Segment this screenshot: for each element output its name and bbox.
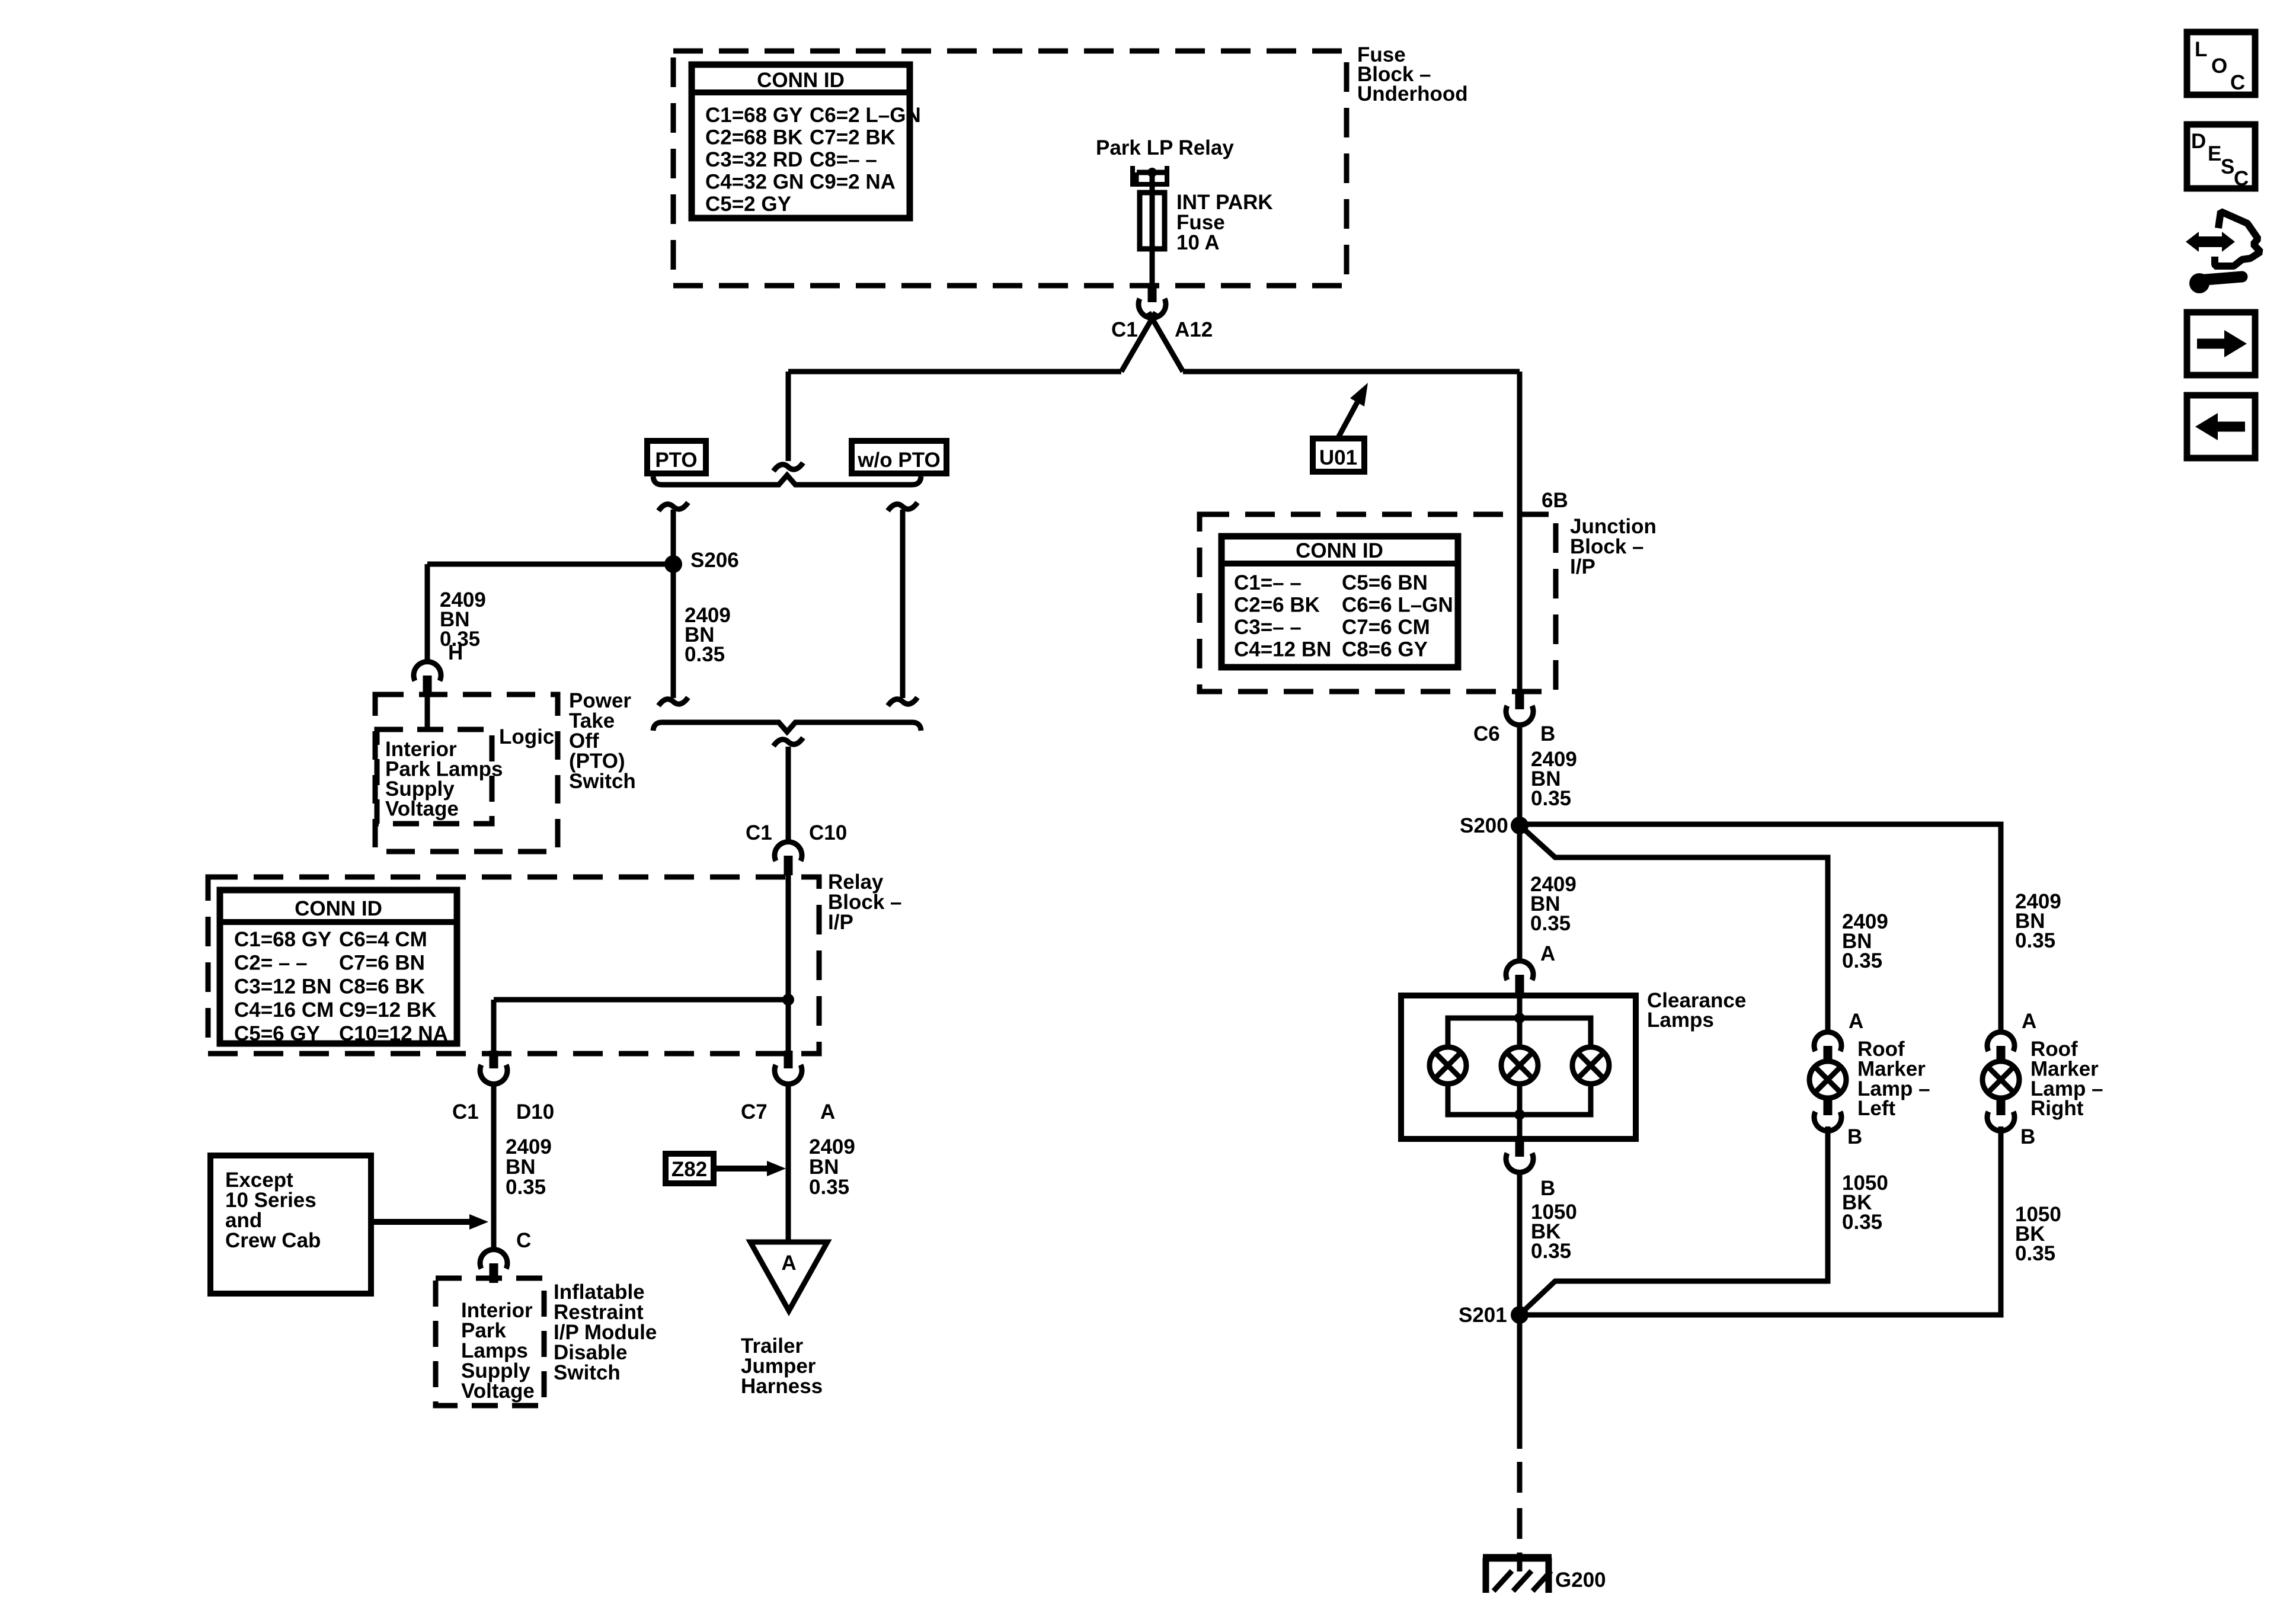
relay contact (Park LP Relay) (1130, 166, 1169, 184)
wire S200 down (1517, 825, 1523, 961)
svg-text:C3=– –: C3=– – (1234, 616, 1302, 639)
roof marker lamp right (1997, 1046, 2006, 1061)
svg-text:C4=16 CM: C4=16 CM (234, 998, 334, 1022)
wire to C1/C10 connector (786, 747, 791, 841)
arrow U01 (1337, 383, 1368, 440)
svg-text:C5=2 GY: C5=2 GY (705, 193, 791, 216)
svg-text:S200: S200 (1460, 814, 1508, 837)
svg-text:D10: D10 (516, 1100, 554, 1124)
connector C1/A12 at fuse block (1139, 284, 1166, 318)
wire down right branch (1517, 372, 1523, 692)
svg-text:C1=68 GY: C1=68 GY (705, 104, 802, 127)
diagnostic icon (arrows and wrench) (2186, 212, 2260, 293)
svg-text:C5=6 BN: C5=6 BN (1342, 571, 1428, 594)
wire label 2409 BN 0.35 (C7/A) (809, 1135, 855, 1199)
PTO right wire (900, 510, 906, 698)
svg-text:0.35: 0.35 (685, 643, 725, 666)
junction dot clearance bus top (1514, 1013, 1525, 1023)
PTO box (647, 441, 706, 473)
svg-text:0.35: 0.35 (2015, 929, 2055, 952)
svg-text:Harness: Harness (741, 1375, 823, 1398)
svg-text:Switch: Switch (569, 770, 636, 793)
svg-text:C6: C6 (1473, 722, 1500, 745)
svg-text:C4=32 GN: C4=32 GN (705, 171, 804, 194)
wire break below PTO brace (773, 738, 803, 746)
connector C6/B below junction block (1506, 692, 1533, 725)
svg-text:10 A: 10 A (1176, 231, 1220, 254)
arrow Except box to wire (373, 1214, 488, 1230)
svg-text:B: B (1540, 1177, 1555, 1200)
svg-text:Z82: Z82 (671, 1158, 707, 1181)
junction block dashed box (1200, 514, 1556, 692)
svg-text:O: O (2211, 55, 2227, 78)
connector C7/A below relay block (775, 1051, 802, 1084)
CONN ID table (relay block) (220, 890, 457, 1045)
svg-text:D: D (2191, 130, 2206, 153)
wire S200 to right roof marker (1520, 824, 2001, 1032)
connector C into interior park lamps (480, 1250, 507, 1283)
svg-text:Underhood: Underhood (1357, 82, 1468, 105)
wire label 2409 BN 0.35 (C6-S200) (1531, 748, 1577, 810)
svg-text:C8=6 GY: C8=6 GY (1342, 638, 1428, 661)
wire H into logic box (425, 694, 430, 728)
PTO switch terminal top-right (888, 502, 917, 511)
svg-text:C6=2 L–GN: C6=2 L–GN (810, 104, 921, 127)
svg-text:C6=6 L–GN: C6=6 L–GN (1342, 594, 1453, 617)
svg-text:C6=4 CM: C6=4 CM (339, 928, 427, 951)
LOC icon box (2187, 32, 2255, 95)
svg-text:A: A (781, 1251, 796, 1275)
connector B below clearance lamps (1506, 1139, 1533, 1172)
svg-text:C7=2 BK: C7=2 BK (810, 126, 896, 149)
Z82 box (666, 1154, 714, 1183)
lamp symbol roof marker right (1982, 1061, 2019, 1098)
interior park lamps supply voltage dashed box (bottom) (436, 1278, 544, 1406)
fuse block label (1357, 43, 1468, 105)
svg-text:I/P: I/P (828, 911, 853, 934)
connector H into logic box (414, 662, 441, 695)
clearance lamp right (1572, 1047, 1609, 1084)
svg-text:0.35: 0.35 (2015, 1242, 2055, 1265)
next arrow icon box (2187, 312, 2255, 375)
svg-text:0.35: 0.35 (1531, 1240, 1571, 1263)
svg-text:C8=– –: C8=– – (810, 148, 877, 171)
wire label 1050 BK 0.35 (roof right) (2015, 1203, 2061, 1265)
PTO switch terminal bottom-left (658, 697, 688, 706)
svg-text:C2= – –: C2= – – (234, 952, 308, 975)
connector C1/C10 into relay block (775, 842, 802, 875)
wire label 2409 BN 0.35 (PTO left wire) (685, 604, 731, 666)
Except 10 Series box (210, 1156, 371, 1294)
wire C6/B to S200 (1517, 727, 1523, 825)
wire label 1050 BK 0.35 (roof left) (1842, 1172, 1888, 1234)
svg-text:0.35: 0.35 (506, 1176, 546, 1199)
connector A roof marker left (1814, 1032, 1841, 1065)
svg-text:A: A (1849, 1010, 1863, 1033)
ground G200 (1483, 1553, 1552, 1593)
wire S206 to H branch (427, 562, 673, 567)
svg-text:Lamps: Lamps (1647, 1009, 1714, 1032)
svg-text:C2=6 BK: C2=6 BK (1234, 594, 1320, 617)
wire label 2409 BN 0.35 (C1/D10) (506, 1135, 552, 1199)
svg-text:C2=68 BK: C2=68 BK (705, 126, 802, 149)
wire relay to fuse (1150, 172, 1155, 193)
trailer jumper harness label (741, 1334, 823, 1398)
connector B roof marker right (1987, 1097, 2014, 1131)
wire to ground (dashed) (1517, 1462, 1523, 1555)
svg-text:C8=6 BK: C8=6 BK (339, 975, 425, 998)
svg-text:Switch: Switch (554, 1361, 621, 1384)
clearance lamp left (1430, 1047, 1466, 1084)
svg-text:0.35: 0.35 (1842, 1211, 1882, 1234)
PTO switch terminal bottom-right (888, 697, 917, 706)
wire label 2409 BN 0.35 (roof right) (2015, 890, 2061, 952)
lamp stub bottom roof right (1997, 1098, 2006, 1113)
trailer jumper harness triangle A (750, 1242, 827, 1311)
wire label 1050 BK 0.35 (B-S201) (1531, 1201, 1577, 1263)
lamp symbol roof marker left (1809, 1061, 1846, 1098)
svg-text:Voltage: Voltage (461, 1379, 535, 1403)
svg-text:A12: A12 (1175, 318, 1213, 341)
svg-text:w/o PTO: w/o PTO (857, 449, 940, 472)
interior park lamps supply voltage dashed box (logic) (377, 729, 492, 824)
bottom brace (653, 722, 921, 732)
svg-text:Right: Right (2030, 1097, 2084, 1120)
svg-text:C1=– –: C1=– – (1234, 571, 1302, 594)
fuse INT PARK 10A (1140, 193, 1165, 249)
wire through clearance box (1517, 996, 1523, 1139)
CONN ID table (junction block) (1221, 536, 1458, 667)
svg-text:0.35: 0.35 (1530, 912, 1571, 935)
clearance lamps outer box (1401, 996, 1636, 1139)
svg-text:Crew Cab: Crew Cab (225, 1229, 321, 1252)
U01 box (1313, 438, 1364, 472)
wire down to PTO break (786, 372, 791, 461)
roof marker lamp right label (2030, 1038, 2103, 1120)
wire B to S201 (1517, 1172, 1523, 1315)
wire S201 to ground (solid) (1517, 1315, 1523, 1449)
clearance lamps inner bus (1448, 1018, 1591, 1115)
junction node in relay block (782, 994, 794, 1006)
roof marker lamp left label (1857, 1038, 1930, 1120)
fuse block underhood dashed box (673, 51, 1347, 286)
wire S201 to left roof marker return (1523, 1126, 1828, 1311)
crossed wires below C1/A12 (1121, 312, 1156, 372)
junction dot clearance bus bottom (1514, 1109, 1525, 1120)
svg-text:0.35: 0.35 (1531, 787, 1571, 810)
svg-text:L: L (2195, 38, 2207, 61)
svg-text:C: C (2230, 71, 2245, 94)
svg-text:C1: C1 (746, 821, 772, 844)
wire left horizontal (788, 369, 1121, 375)
svg-text:C1=68 GY: C1=68 GY (234, 928, 331, 951)
svg-text:C10: C10 (809, 821, 847, 844)
svg-text:C9=2 NA: C9=2 NA (810, 171, 896, 194)
svg-text:Left: Left (1857, 1097, 1896, 1120)
svg-text:C4=12 BN: C4=12 BN (1234, 638, 1331, 661)
svg-text:I/P: I/P (1570, 555, 1595, 578)
junction block label (1570, 515, 1657, 578)
connector C1/D10 below relay block (480, 1051, 507, 1084)
CONN ID table (fuse block) (692, 65, 921, 218)
lamp stub bottom roof left (1824, 1098, 1833, 1113)
svg-text:C: C (516, 1229, 531, 1252)
svg-text:A: A (2022, 1010, 2036, 1033)
DESC icon box (2187, 124, 2255, 190)
wire right horizontal (1183, 369, 1520, 375)
inflatable restraint label (554, 1281, 657, 1384)
splice S206 (664, 555, 682, 573)
connector A into clearance lamps (1506, 961, 1533, 994)
roof marker lamp left (1824, 1046, 1833, 1061)
wire label 2409 BN 0.35 (H branch) (440, 588, 486, 651)
wire break above PTO brace (773, 463, 803, 471)
svg-text:C7=6 CM: C7=6 CM (1342, 616, 1430, 639)
svg-text:S: S (2221, 155, 2234, 178)
logic outer dashed box (375, 694, 558, 852)
relay block dashed box (208, 877, 819, 1054)
svg-text:C5=6 GY: C5=6 GY (234, 1022, 320, 1045)
svg-text:0.35: 0.35 (1842, 949, 1882, 972)
svg-text:C1: C1 (452, 1100, 479, 1124)
svg-text:E: E (2208, 142, 2221, 165)
svg-text:B: B (1847, 1125, 1862, 1148)
svg-text:C3=32 RD: C3=32 RD (705, 148, 802, 171)
connector A roof marker right (1987, 1032, 2014, 1065)
wire S201 to right roof marker return (1520, 1126, 2001, 1315)
wire label 2409 BN 0.35 (roof left) (1842, 910, 1888, 972)
wire C1/D10 down (491, 1086, 497, 1249)
wire inside relay block (786, 875, 791, 1051)
svg-text:Logic: Logic (499, 725, 554, 748)
wire branch left (494, 997, 788, 1003)
svg-text:6B: 6B (1542, 489, 1568, 512)
svg-text:0.35: 0.35 (809, 1176, 849, 1199)
clearance lamps label (1647, 989, 1746, 1032)
svg-text:C7=6 BN: C7=6 BN (339, 952, 425, 975)
svg-text:S201: S201 (1459, 1304, 1507, 1327)
svg-text:CONN ID: CONN ID (295, 897, 382, 920)
svg-text:H: H (448, 641, 463, 664)
svg-text:A: A (1540, 942, 1555, 965)
wire S200 to left roof marker (1523, 828, 1828, 1032)
svg-text:CONN ID: CONN ID (757, 69, 845, 92)
svg-text:B: B (2020, 1125, 2035, 1148)
wire fuse to connector (1150, 249, 1155, 284)
svg-text:U01: U01 (1319, 446, 1357, 469)
PTO left wire (671, 510, 676, 698)
connector B roof marker left (1814, 1097, 1841, 1131)
svg-text:CONN ID: CONN ID (1296, 539, 1383, 562)
svg-text:S206: S206 (690, 549, 739, 572)
wire C7/A down (786, 1086, 791, 1242)
svg-text:C7: C7 (741, 1100, 768, 1124)
svg-text:A: A (820, 1100, 835, 1124)
power take off switch label (569, 689, 636, 793)
svg-text:B: B (1540, 722, 1555, 745)
svg-text:Park LP Relay: Park LP Relay (1096, 136, 1234, 159)
svg-text:C10=12 NA: C10=12 NA (339, 1022, 448, 1045)
svg-text:C: C (2234, 167, 2249, 190)
clearance lamp middle (1501, 1047, 1538, 1084)
splice S200 (1511, 817, 1528, 834)
previous arrow icon box (2187, 395, 2255, 458)
PTO switch terminal top-left (658, 502, 688, 511)
svg-text:Voltage: Voltage (385, 798, 459, 821)
svg-text:C1: C1 (1111, 318, 1138, 341)
w/o PTO box (852, 441, 946, 473)
wire label 2409 BN 0.35 (S200-A) (1530, 873, 1576, 935)
svg-text:C9=12 BK: C9=12 BK (339, 998, 436, 1022)
splice S201 (1511, 1306, 1528, 1324)
svg-text:C3=12 BN: C3=12 BN (234, 975, 331, 998)
arrow Z82 to wire (716, 1161, 786, 1176)
relay block label (828, 870, 902, 934)
svg-text:G200: G200 (1555, 1569, 1606, 1592)
top brace (653, 475, 921, 485)
svg-text:PTO: PTO (655, 449, 697, 472)
